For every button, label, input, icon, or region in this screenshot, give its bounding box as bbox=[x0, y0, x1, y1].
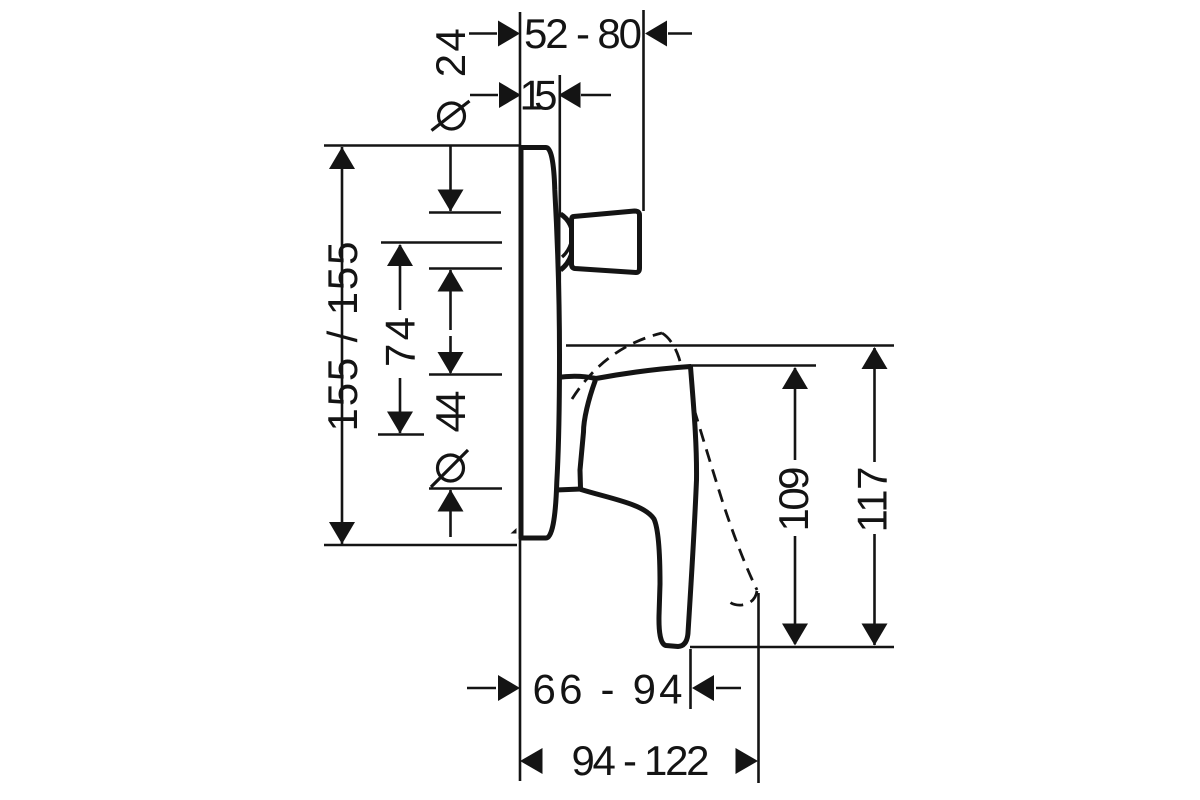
svg-text:74: 74 bbox=[377, 317, 424, 367]
svg-text:155 / 155: 155 / 155 bbox=[319, 242, 366, 432]
svg-text:44: 44 bbox=[427, 391, 474, 433]
svg-text:52 - 80: 52 - 80 bbox=[524, 10, 642, 57]
svg-text:66 - 94: 66 - 94 bbox=[533, 666, 683, 713]
svg-text:109: 109 bbox=[770, 467, 817, 532]
svg-text:94 - 122: 94 - 122 bbox=[572, 737, 710, 784]
svg-text:117: 117 bbox=[849, 467, 896, 533]
svg-text:15: 15 bbox=[520, 72, 558, 119]
svg-text:24: 24 bbox=[427, 28, 474, 77]
